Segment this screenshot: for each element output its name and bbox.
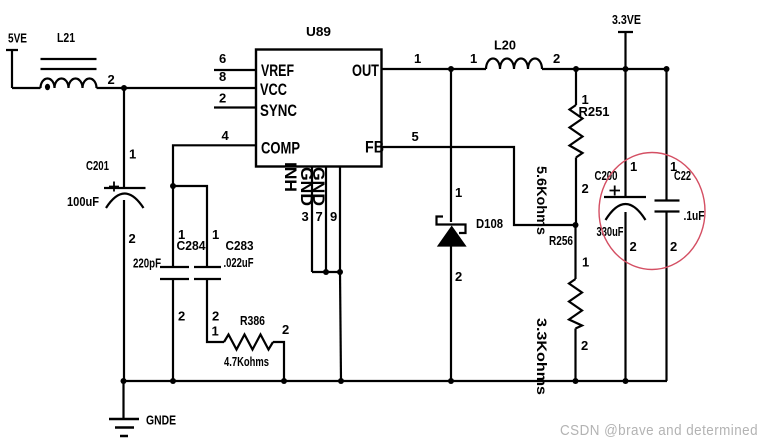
capacitor C284 [160,267,189,279]
op-amp U89 IC body [256,50,382,167]
value 5.6Kohms (rotated) [534,166,550,235]
value 330uF [597,224,624,239]
svg-text:7: 7 [316,209,323,224]
IC ground pins 3,7,9 wires [312,167,340,273]
label C201 [86,158,109,173]
rail junction IC ground [338,378,344,384]
svg-text:2: 2 [129,231,136,246]
svg-text:2: 2 [212,309,219,324]
svg-text:1: 1 [470,51,477,66]
pin 8 number [219,69,226,84]
resistor R386 [224,335,273,350]
label L21 [57,30,75,45]
junction FB/R251/R256 [573,222,579,228]
pin 2 number [219,91,226,106]
svg-text:R251: R251 [579,104,610,119]
svg-text:1: 1 [212,324,219,339]
svg-text:2: 2 [219,91,226,106]
watermark [560,423,758,439]
svg-text:2: 2 [553,51,560,66]
svg-text:2: 2 [582,181,589,196]
svg-text:.022uF: .022uF [224,255,254,270]
svg-text:2: 2 [178,309,185,324]
svg-text:R386: R386 [240,313,265,328]
svg-text:CSDN @brave and determined: CSDN @brave and determined [560,423,758,439]
pin 2 label of D108 [455,269,462,284]
rail junction C201 [121,378,127,384]
label C200 [595,168,618,183]
pin name VCC [260,80,287,99]
wire C22 to ground rail [665,212,667,382]
pin name GND (rotated, pin 7) [297,167,316,206]
value .022uF [224,255,254,270]
pin 1 label of C284 [178,227,185,242]
wire D108 to ground rail [450,247,452,382]
label C22 [674,168,691,183]
rail junction C200 [623,378,629,384]
svg-text:.1uF: .1uF [684,208,705,223]
svg-text:5VE: 5VE [8,31,27,46]
svg-text:GNDE: GNDE [146,413,176,428]
svg-text:6: 6 [219,51,226,66]
pin 2 stub SYNC [214,106,256,108]
wire C283 down to R386 [207,279,224,342]
wire junction down to C201 [123,88,125,188]
svg-text:1: 1 [455,185,462,200]
wire C284 to ground rail [172,279,174,381]
wire C201 to ground rail [123,200,125,381]
junction OUT/R251 [573,66,579,72]
pin name SYNC [260,101,297,120]
svg-text:2: 2 [282,322,289,337]
capacitor C200 [604,186,646,221]
label U89 [306,24,331,39]
capacitor C22 [655,201,680,212]
net label 3.3VE [612,12,641,27]
svg-text:2: 2 [455,269,462,284]
rail junction R386 [281,378,287,384]
pin 2 label of R256 [581,338,588,353]
pin 2 label of R386 [282,322,289,337]
inductor L20 [486,59,542,69]
capacitor C283 [194,267,221,279]
svg-text:VREF: VREF [261,61,294,80]
label C284 [177,238,207,253]
wire FB net [382,147,576,225]
wire COMP branch to C283 [173,186,207,267]
svg-text:2: 2 [581,338,588,353]
svg-text:COMP: COMP [261,139,300,158]
svg-text:1: 1 [630,159,637,174]
svg-text:C283: C283 [226,238,254,253]
power 3.3VE [618,32,633,69]
pin 2 label of C201 [129,231,136,246]
resistor R251 [570,69,583,225]
rail junction D108 [448,378,454,384]
label C283 [226,238,254,253]
ground rail wire [123,380,667,382]
svg-text:2: 2 [630,239,637,254]
pin 1 label of L20 [470,51,477,66]
svg-text:L20: L20 [494,38,516,53]
svg-text:5: 5 [412,129,419,144]
label R251 [579,104,610,119]
pin name FB [365,138,384,157]
junction pins 7,9 [323,269,343,275]
wire 3.3VE rail down to C200 [624,69,626,197]
pin 1 label of R386 [212,324,219,339]
wire R386 to ground rail [273,342,284,381]
wire OUT net [382,68,668,70]
net label GNDE [146,413,176,428]
pin 1 number OUT [414,51,421,66]
svg-text:3.3Kohms: 3.3Kohms [534,318,550,395]
pin 2 label of L21 [108,72,115,87]
junction on COMP net [170,183,176,189]
wire OUT down to D108 [450,69,452,222]
pin 9 number [330,209,337,224]
pin name OUT [352,61,379,80]
pin 2 label of L20 [553,51,560,66]
pin 2 label of R251 [582,181,589,196]
svg-text:R256: R256 [549,233,573,248]
pin 1 label of C283 [212,227,219,242]
wire 5VE to L21 [12,87,41,89]
value 3.3Kohms (rotated) [534,318,550,395]
pin 5 number FB [412,129,419,144]
pin 3 number [302,209,309,224]
pin name COMP [261,139,300,158]
svg-text:4.7Kohms: 4.7Kohms [224,354,269,369]
pin 2 label of C284 [178,309,185,324]
svg-text:D108: D108 [476,216,503,231]
rail junction C284 [170,378,176,384]
wire C200 to ground rail [624,212,626,381]
svg-text:3: 3 [302,209,309,224]
svg-text:1: 1 [582,255,589,270]
value 220pF [133,256,161,271]
pin 4 number [222,128,230,143]
pin 1 label of C22 [670,159,677,174]
svg-text:220pF: 220pF [133,256,161,271]
pin 2 label of C283 [212,309,219,324]
resistor R256 [569,225,582,381]
svg-text:100uF: 100uF [67,194,99,209]
pin name INH (rotated, pin 3) [281,162,300,192]
svg-text:2: 2 [108,72,115,87]
value .1uF [684,208,705,223]
svg-text:1: 1 [129,147,136,162]
svg-text:1: 1 [212,227,219,242]
svg-text:L21: L21 [57,30,75,45]
label L20 [494,38,516,53]
svg-text:U89: U89 [306,24,331,39]
pin 6 number [219,51,226,66]
pin name VREF [261,61,294,80]
pin 1 label of R256 [582,255,589,270]
svg-text:4: 4 [222,128,230,143]
pin 2 label of C200 [630,239,637,254]
svg-text:9: 9 [330,209,337,224]
pin name GND (rotated, pin 9) [309,167,328,206]
diode D108 (zener) [437,217,466,247]
pin 7 number [316,209,323,224]
pin 1 label of C201 [129,147,136,162]
wire OUT right end down to C22 [665,69,667,201]
svg-text:SYNC: SYNC [260,101,297,120]
svg-text:1: 1 [414,51,421,66]
power 5VE [6,50,18,88]
svg-text:FB: FB [365,138,384,157]
pin 4 wire COMP [173,145,256,267]
wire IC ground to rail [340,272,341,381]
svg-text:C284: C284 [177,238,207,253]
svg-text:2: 2 [670,239,677,254]
junction node at 5V rail / C201 [121,85,127,91]
value 4.7Kohms [224,354,269,369]
pin 6 stub VREF [214,69,256,71]
rail junction R256 [573,378,579,384]
capacitor C201 [104,182,146,209]
junction OUT right end / C22 [664,66,670,72]
svg-text:8: 8 [219,69,226,84]
pin 2 label of C22 [670,239,677,254]
value 100uF [67,194,99,209]
svg-text:VCC: VCC [260,80,287,99]
pin 1 label of R251 [582,92,589,107]
junction OUT/3.3VE/C200 [623,66,629,72]
svg-text:C201: C201 [86,158,109,173]
svg-text:3.3VE: 3.3VE [612,12,641,27]
pin 1 label of C200 [630,159,637,174]
label R386 [240,313,265,328]
label R256 [549,233,573,248]
net label 5VE [8,31,27,46]
ground GNDE [109,381,139,436]
junction OUT/D108 [448,66,454,72]
red highlight ellipse [599,153,705,270]
svg-text:OUT: OUT [352,61,379,80]
label D108 [476,216,503,231]
pin 1 label of D108 [455,185,462,200]
wire L21 to VCC pin 8 [97,87,257,89]
inductor L21 [41,59,97,90]
svg-text:C22: C22 [674,168,691,183]
